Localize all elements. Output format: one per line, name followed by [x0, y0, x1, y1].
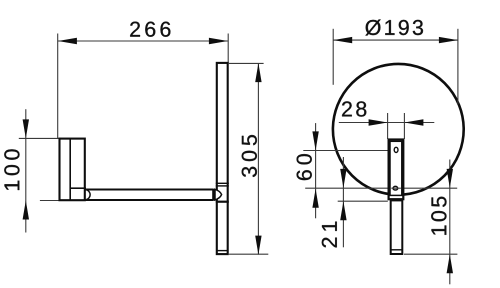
wall plate divider	[69, 139, 71, 201]
bracket inner plate	[390, 141, 402, 195]
dim line 28	[339, 122, 435, 124]
arrow 21 top	[340, 169, 346, 188]
arrow 60 bottom	[312, 189, 318, 208]
hole2 ref line	[305, 187, 457, 189]
arrow 305 bottom	[255, 236, 261, 255]
ball joint at arm mirror end	[215, 189, 222, 200]
dim line 21	[342, 157, 344, 247]
arrow 266 left	[58, 38, 77, 44]
label diameter 193	[365, 20, 423, 36]
label 266	[130, 22, 170, 37]
screw hole 2	[393, 186, 398, 190]
ext line 266 left	[57, 34, 59, 139]
ext line 193 left	[332, 29, 334, 85]
arrow 105 bottom	[447, 254, 453, 273]
arm top line	[86, 189, 214, 191]
dim line 105	[449, 160, 451, 285]
arrow 305 top	[255, 63, 261, 82]
ext line 28 right	[403, 113, 405, 139]
stem cap line	[391, 249, 403, 251]
hub top line	[70, 187, 86, 189]
ext line 193 right	[457, 29, 459, 105]
arm bottom line	[86, 199, 214, 201]
holder ring line upper 1	[216, 182, 229, 184]
arrow 105 top	[447, 169, 453, 188]
screw hole 1	[394, 147, 398, 152]
label 100	[4, 149, 19, 190]
wall plate side view	[60, 139, 85, 201]
ext line 28 left	[387, 113, 389, 139]
label 305	[242, 135, 257, 177]
dim line 100	[25, 109, 27, 232]
arrow 100 top	[23, 119, 29, 138]
mirror circle front view	[333, 64, 464, 195]
arm end cap	[212, 189, 215, 201]
label 60	[297, 154, 312, 180]
arrow 21 bottom	[340, 201, 346, 220]
label 28	[342, 101, 366, 116]
ball joint at arm wall end	[86, 190, 90, 200]
arrow 60 top	[312, 131, 318, 150]
ext line 100 bottom	[40, 200, 60, 202]
mirror bar side view	[217, 63, 228, 254]
stem bottom ref line	[404, 253, 457, 255]
ext line 266 right	[227, 34, 229, 63]
label 105	[431, 197, 446, 235]
dim line 305	[257, 63, 259, 255]
holder ring line lower	[216, 201, 229, 203]
arrow 193 right	[439, 37, 458, 43]
bar bottom cap line	[217, 250, 228, 252]
arrow 193 left	[333, 37, 352, 43]
ext line 305 top	[228, 62, 264, 64]
dim line 266	[58, 40, 228, 42]
arrow 28 left	[369, 119, 388, 125]
dim line 60	[315, 123, 317, 218]
plate bottom ref line	[338, 200, 388, 202]
arrow 266 right	[209, 38, 228, 44]
label 21	[322, 222, 337, 248]
dim line diameter 193	[333, 39, 458, 41]
stem front view	[391, 200, 403, 254]
hole1 ref line	[303, 150, 387, 152]
hole2 line across bracket	[391, 187, 401, 189]
arrow 28 right	[404, 119, 423, 125]
bracket outer plate	[389, 140, 404, 200]
arrow 100 bottom	[23, 201, 29, 220]
holder ring line upper 2	[216, 185, 229, 187]
ext line 100 top	[19, 137, 61, 139]
ext line 305 bottom	[228, 253, 268, 255]
